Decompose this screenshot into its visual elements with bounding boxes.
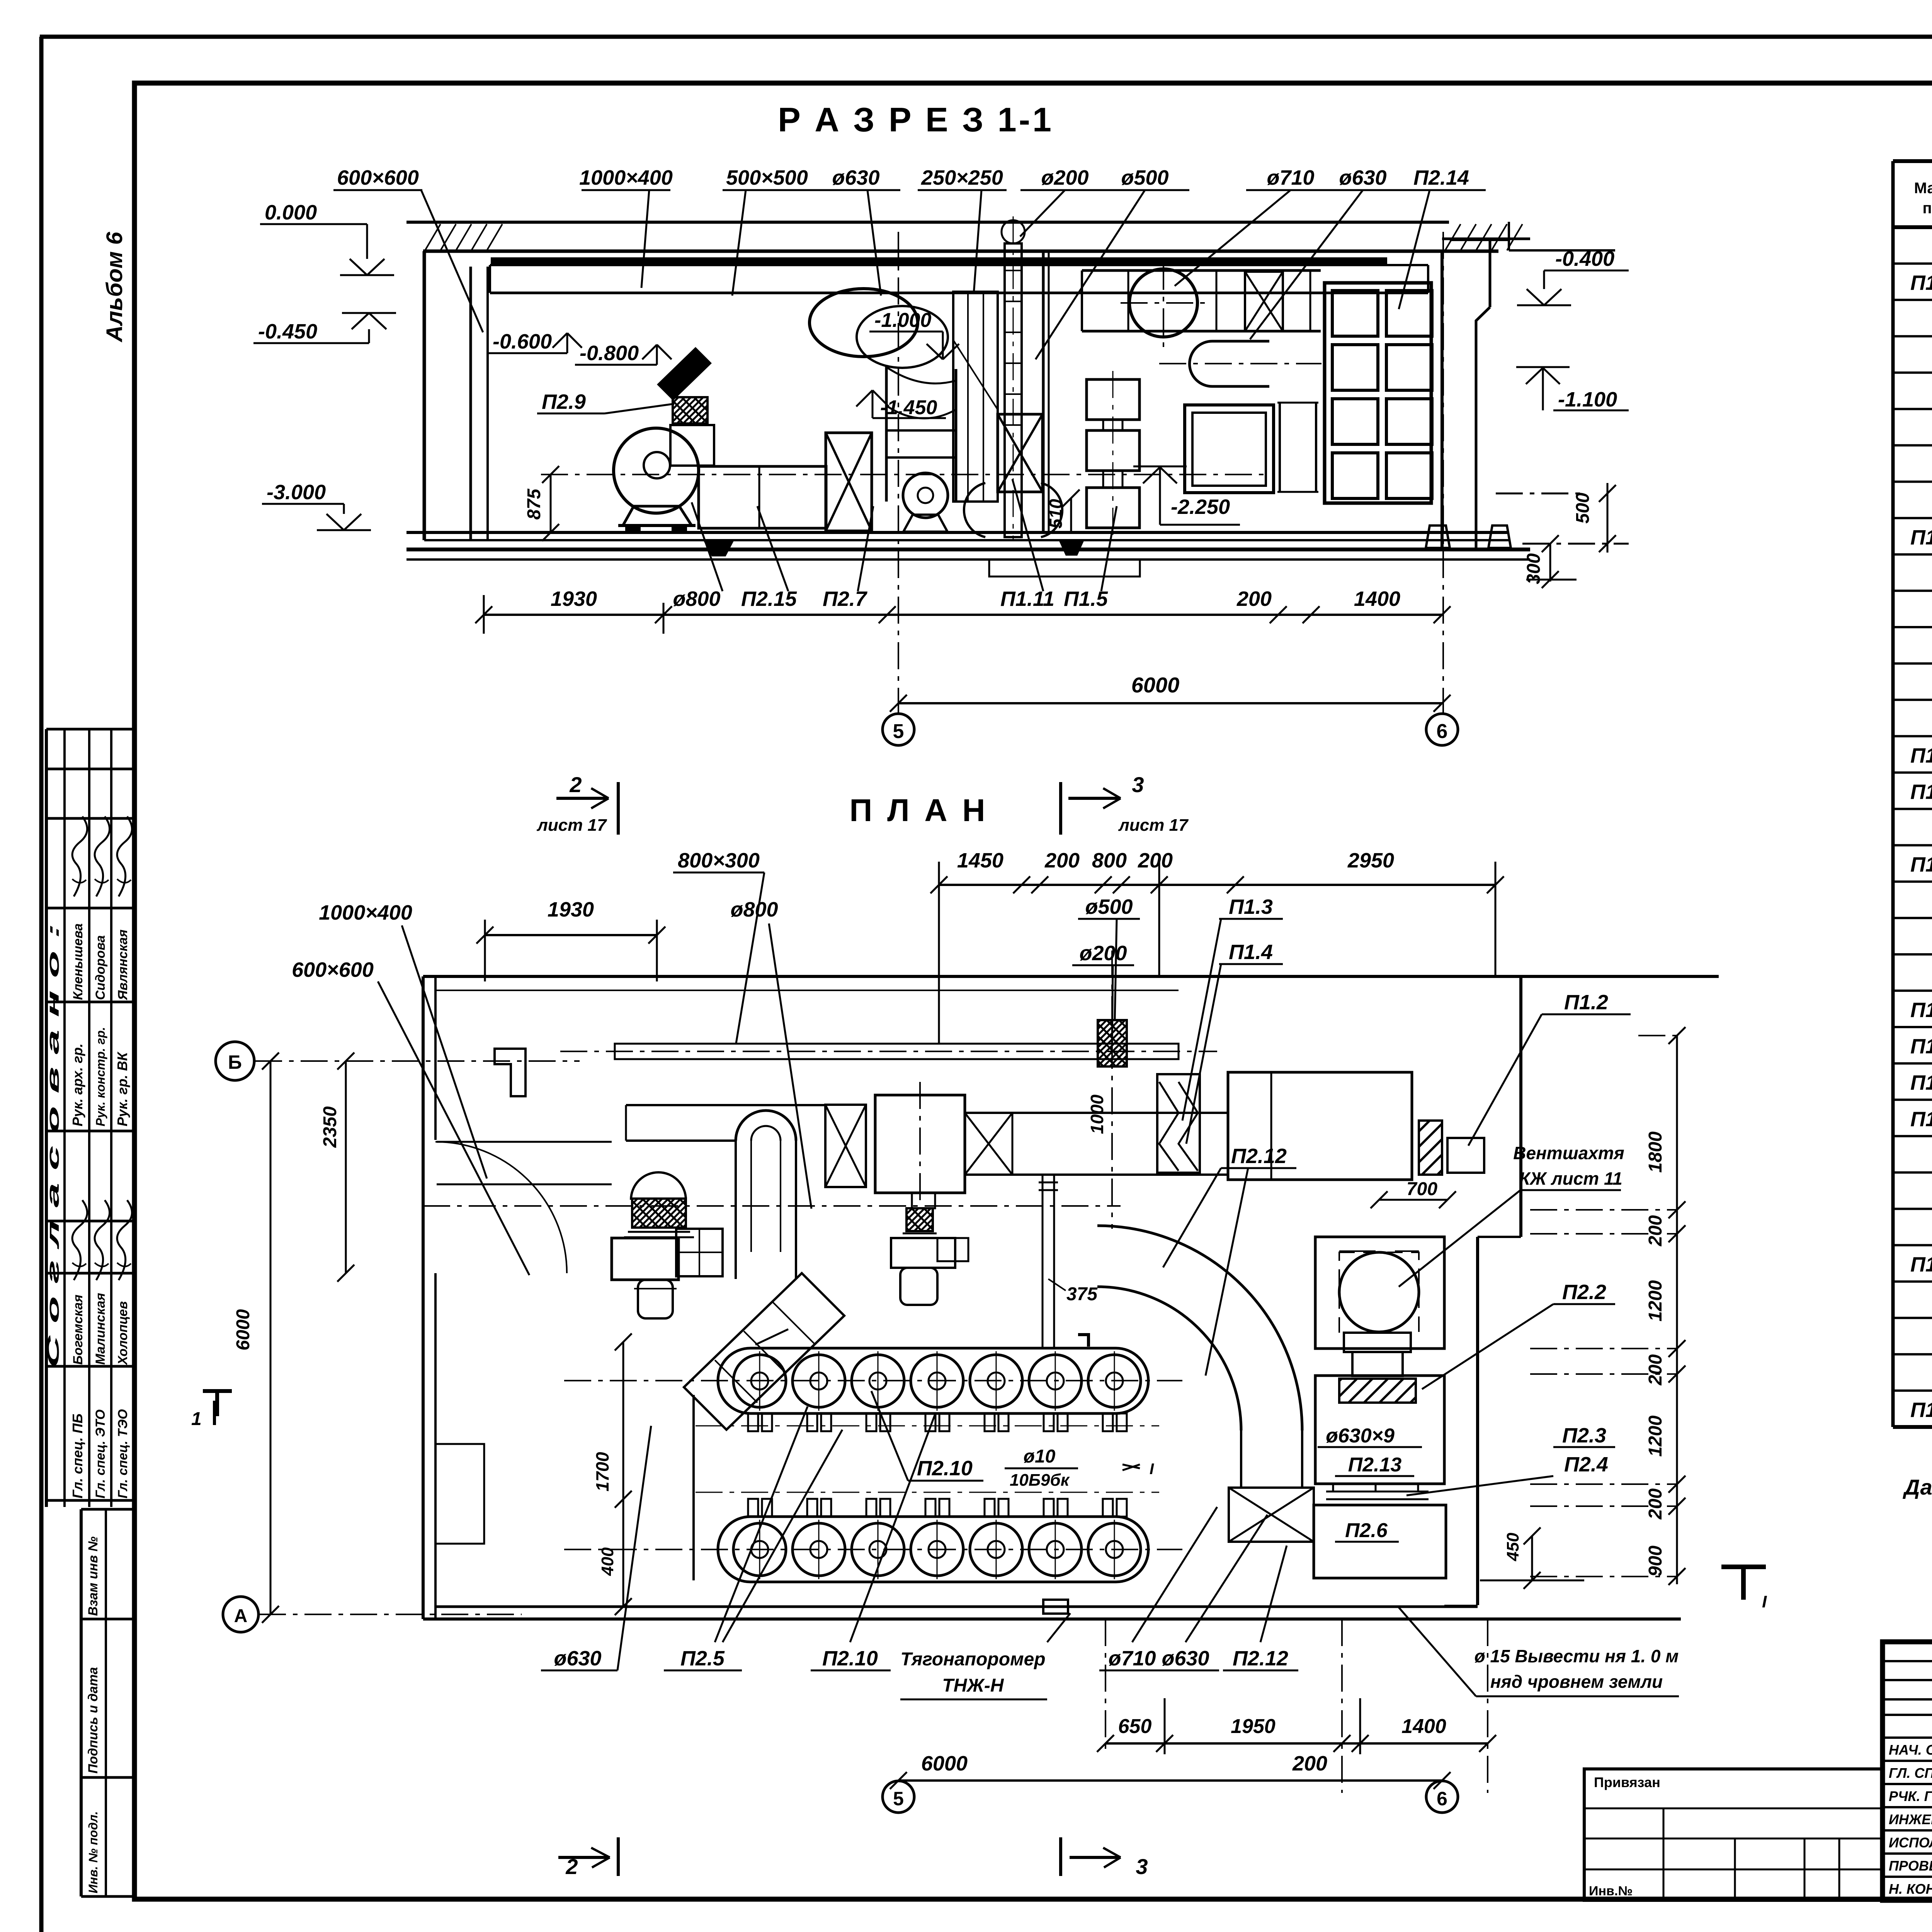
svg-text:1400: 1400	[1354, 587, 1400, 611]
svg-text:Гл. спец. ПБ: Гл. спец. ПБ	[70, 1413, 85, 1498]
svg-text:П2.7: П2.7	[823, 587, 868, 611]
svg-text:900: 900	[1645, 1546, 1666, 1577]
svg-text:П2.13: П2.13	[1348, 1454, 1402, 1476]
svg-text:няд чровнем земли: няд чровнем земли	[1490, 1672, 1663, 1692]
svg-text:0.000: 0.000	[265, 201, 317, 224]
svg-text:П1.1: П1.1	[1910, 271, 1932, 294]
svg-text:Привязан: Привязан	[1594, 1774, 1660, 1790]
svg-text:Альбом 6: Альбом 6	[102, 231, 127, 343]
svg-text:200: 200	[1292, 1752, 1327, 1775]
svg-text:375: 375	[1066, 1284, 1098, 1304]
svg-text:Данный лист читать совместн: Данный лист читать совместно с листом 17…	[1903, 1475, 1932, 1499]
svg-text:5: 5	[893, 1788, 904, 1810]
svg-text:ГЛ. СПЕЦ: ГЛ. СПЕЦ	[1889, 1765, 1932, 1781]
svg-text:3: 3	[1136, 1854, 1148, 1879]
svg-text:ø 15 Вывести ня 1. 0 м: ø 15 Вывести ня 1. 0 м	[1475, 1646, 1679, 1666]
svg-text:1930: 1930	[551, 587, 597, 611]
svg-text:200: 200	[1645, 1215, 1666, 1247]
svg-text:П1.2: П1.2	[1910, 526, 1932, 549]
svg-text:2950: 2950	[1347, 849, 1394, 872]
svg-text:3: 3	[1132, 772, 1144, 797]
svg-text:Холопцев: Холопцев	[116, 1301, 130, 1366]
svg-text:1950: 1950	[1231, 1715, 1276, 1738]
svg-text:П1.4: П1.4	[1910, 780, 1932, 803]
svg-text:П1.5: П1.5	[1910, 853, 1932, 876]
svg-text:П1.3: П1.3	[1229, 895, 1273, 918]
svg-text:1200: 1200	[1645, 1280, 1666, 1321]
svg-text:П1.3: П1.3	[1910, 744, 1932, 767]
svg-text:200: 200	[1138, 849, 1173, 872]
svg-text:-1.450: -1.450	[880, 396, 937, 419]
svg-text:650: 650	[1118, 1715, 1152, 1738]
svg-text:П2.4: П2.4	[1564, 1453, 1608, 1476]
svg-text:ТНЖ-Н: ТНЖ-Н	[942, 1675, 1004, 1696]
svg-text:510: 510	[1046, 499, 1066, 529]
svg-text:1000: 1000	[1087, 1094, 1107, 1134]
svg-text:Гл. спец. ЭТО: Гл. спец. ЭТО	[93, 1410, 108, 1498]
svg-text:П1.11: П1.11	[1910, 1398, 1932, 1422]
svg-text:ø800: ø800	[730, 898, 778, 921]
svg-text:400: 400	[598, 1547, 617, 1576]
svg-text:П1.6: П1.6	[1910, 998, 1932, 1022]
svg-text:ПРОВЕРИЛ: ПРОВЕРИЛ	[1889, 1858, 1932, 1874]
svg-text:500×500: 500×500	[726, 166, 808, 189]
svg-text:1200: 1200	[1645, 1415, 1666, 1457]
svg-text:ø500: ø500	[1085, 895, 1133, 918]
svg-text:Малинская: Малинская	[93, 1293, 108, 1365]
svg-text:ø630: ø630	[1339, 166, 1386, 189]
svg-text:ИНЖЕНЕР: ИНЖЕНЕР	[1889, 1811, 1932, 1827]
svg-text:600×600: 600×600	[337, 166, 419, 189]
svg-text:10Б9бк: 10Б9бк	[1010, 1471, 1070, 1490]
svg-text:2350: 2350	[320, 1106, 340, 1148]
svg-text:КЖ лист 11: КЖ лист 11	[1519, 1168, 1622, 1189]
svg-text:Марка: Марка	[1914, 180, 1932, 197]
svg-text:-3.000: -3.000	[267, 481, 326, 504]
svg-text:Кленышева: Кленышева	[71, 923, 85, 1000]
svg-text:П2.2: П2.2	[1562, 1281, 1606, 1304]
svg-text:-0.600: -0.600	[493, 330, 552, 353]
svg-text:600×600: 600×600	[292, 958, 374, 981]
svg-text:I: I	[1762, 1592, 1767, 1611]
svg-text:П1.7: П1.7	[1910, 1035, 1932, 1058]
svg-text:РЧК. ГР.: РЧК. ГР.	[1889, 1788, 1932, 1804]
svg-text:ø630: ø630	[832, 166, 879, 189]
svg-text:-0.800: -0.800	[580, 342, 639, 365]
svg-text:-1.100: -1.100	[1558, 388, 1617, 411]
svg-text:-0.450: -0.450	[258, 320, 317, 343]
svg-text:ø710: ø710	[1108, 1647, 1156, 1670]
svg-text:лист 17: лист 17	[1118, 816, 1189, 835]
svg-text:Тягонапоромер: Тягонапоромер	[900, 1649, 1045, 1670]
svg-text:700: 700	[1406, 1179, 1437, 1199]
svg-text:П1.2: П1.2	[1564, 991, 1608, 1014]
svg-text:А: А	[234, 1606, 248, 1626]
svg-text:П2.12: П2.12	[1231, 1145, 1287, 1168]
svg-text:1930: 1930	[548, 898, 594, 921]
svg-text:ø200: ø200	[1041, 166, 1088, 189]
svg-text:6: 6	[1437, 720, 1448, 743]
svg-text:5: 5	[893, 720, 904, 743]
svg-text:Являнская: Являнская	[116, 929, 130, 1000]
svg-text:1: 1	[191, 1409, 202, 1429]
svg-text:-0.400: -0.400	[1555, 247, 1614, 270]
svg-text:-1.000: -1.000	[874, 309, 932, 332]
svg-text:П2.6: П2.6	[1345, 1519, 1388, 1542]
svg-text:-2.250: -2.250	[1171, 495, 1230, 519]
svg-text:200: 200	[1645, 1488, 1666, 1520]
svg-text:ø630×9: ø630×9	[1326, 1425, 1395, 1447]
svg-text:1000×400: 1000×400	[579, 166, 673, 189]
svg-text:ø710: ø710	[1267, 166, 1314, 189]
svg-text:Инв.№: Инв.№	[1589, 1884, 1633, 1898]
svg-text:Богемская: Богемская	[71, 1294, 85, 1365]
svg-text:П2.12: П2.12	[1233, 1647, 1288, 1670]
svg-text:НАЧ. ОТД.: НАЧ. ОТД.	[1889, 1742, 1932, 1758]
svg-text:6000: 6000	[233, 1309, 253, 1350]
svg-text:1450: 1450	[957, 849, 1003, 872]
svg-text:2: 2	[569, 772, 582, 797]
svg-text:800×300: 800×300	[678, 849, 760, 872]
svg-text:П2.5: П2.5	[680, 1647, 725, 1670]
svg-text:П1.9: П1.9	[1910, 1107, 1932, 1131]
svg-text:лист 17: лист 17	[536, 816, 607, 835]
svg-text:П2.9: П2.9	[542, 390, 586, 413]
svg-text:П1.4: П1.4	[1229, 940, 1273, 964]
svg-text:П2.14: П2.14	[1413, 166, 1469, 189]
svg-text:250×250: 250×250	[921, 166, 1003, 189]
svg-text:800: 800	[1092, 849, 1127, 872]
svg-text:450: 450	[1503, 1532, 1522, 1561]
svg-text:поз.: поз.	[1922, 200, 1932, 217]
svg-text:П1.11: П1.11	[1000, 587, 1054, 611]
svg-text:ø200: ø200	[1079, 942, 1127, 965]
svg-text:П1.8: П1.8	[1910, 1071, 1932, 1094]
svg-text:ø10: ø10	[1024, 1446, 1056, 1467]
svg-text:1400: 1400	[1401, 1715, 1446, 1738]
svg-text:П2.3: П2.3	[1562, 1424, 1606, 1447]
svg-text:200: 200	[1645, 1354, 1666, 1386]
svg-text:1800: 1800	[1645, 1131, 1666, 1173]
svg-text:6000: 6000	[921, 1752, 968, 1775]
svg-text:П2.10: П2.10	[917, 1457, 973, 1480]
svg-text:I: I	[1150, 1461, 1154, 1478]
svg-text:Инв. № подл.: Инв. № подл.	[86, 1811, 100, 1893]
svg-text:П1.10: П1.10	[1910, 1253, 1932, 1276]
svg-text:6000: 6000	[1131, 673, 1180, 697]
svg-text:Н. КОНТР.: Н. КОНТР.	[1889, 1881, 1932, 1897]
svg-text:Рук. гр. ВК: Рук. гр. ВК	[114, 1051, 130, 1126]
svg-text:ø630: ø630	[1162, 1647, 1209, 1670]
svg-text:200: 200	[1044, 849, 1080, 872]
svg-text:Б: Б	[228, 1051, 242, 1073]
svg-text:С о г л а с о в а н о :: С о г л а с о в а н о :	[44, 923, 63, 1368]
svg-text:Вентшахтя: Вентшахтя	[1513, 1143, 1624, 1163]
svg-text:Подпись и дата: Подпись и дата	[86, 1667, 100, 1774]
svg-text:ø630: ø630	[554, 1647, 601, 1670]
svg-text:6: 6	[1437, 1788, 1447, 1810]
svg-text:Гл. спец. ТЭО: Гл. спец. ТЭО	[116, 1409, 130, 1498]
svg-text:500: 500	[1573, 493, 1593, 524]
svg-text:Р А З Р Е З 1-1: Р А З Р Е З 1-1	[778, 100, 1054, 139]
svg-text:Сидорова: Сидорова	[93, 935, 108, 1000]
svg-text:2: 2	[565, 1854, 578, 1879]
svg-text:ø500: ø500	[1121, 166, 1168, 189]
svg-text:П Л А Н: П Л А Н	[849, 793, 988, 828]
svg-text:200: 200	[1236, 587, 1272, 611]
svg-text:875: 875	[524, 488, 544, 520]
svg-text:ИСПОЛНИЛ: ИСПОЛНИЛ	[1889, 1835, 1932, 1850]
svg-text:Рук. констр. гр.: Рук. констр. гр.	[94, 1027, 107, 1126]
svg-text:П2.10: П2.10	[822, 1647, 878, 1670]
svg-text:Взам инв №: Взам инв №	[86, 1536, 100, 1616]
svg-text:Рук. арх. гр.: Рук. арх. гр.	[70, 1043, 85, 1126]
svg-text:1000×400: 1000×400	[319, 901, 412, 924]
svg-text:1700: 1700	[592, 1452, 612, 1492]
svg-text:ø800: ø800	[673, 587, 720, 611]
